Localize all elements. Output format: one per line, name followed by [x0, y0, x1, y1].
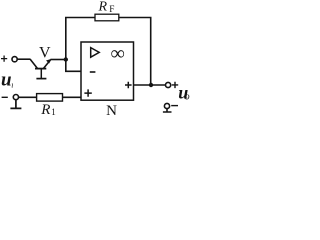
svg-text:u: u: [1, 70, 12, 91]
wire from transistor collector to node A: [50, 59, 65, 61]
svg-text:F: F: [109, 5, 114, 15]
wire op-amp output to + output terminal: [134, 84, 166, 86]
node A junction dot inverting input: [64, 57, 68, 61]
terminal - input circle: [13, 95, 18, 100]
svg-text:R: R: [98, 0, 108, 15]
svg-text:N: N: [106, 103, 117, 119]
resistor R1: [37, 94, 63, 102]
label - input: [2, 96, 8, 98]
ground at - output terminal: [163, 109, 172, 112]
wire from + terminal to transistor emitter: [17, 58, 30, 60]
terminal - output circle: [164, 103, 169, 108]
wire feedback top from RF to right vertical down to output node: [119, 18, 151, 86]
label + input: [1, 56, 7, 62]
resistor RF: [95, 14, 119, 21]
op-amp non-inverting input label +: [84, 89, 91, 96]
label + output: [172, 82, 178, 88]
svg-text:o: o: [185, 92, 190, 103]
terminal + input circle: [12, 57, 17, 62]
ground at transistor base: [36, 78, 46, 80]
wire feedback top from left vertical to RF: [66, 18, 95, 60]
svg-text:R: R: [40, 102, 50, 118]
op-amp triangle symbol: [91, 48, 100, 58]
op-amp U1 box: [81, 42, 134, 100]
wire from R1 to op-amp + input: [63, 96, 82, 98]
wire from - terminal to R1: [19, 96, 37, 98]
svg-text:1: 1: [51, 107, 56, 117]
wire jog from node A into op-amp inverting input: [66, 60, 81, 72]
node B junction dot output/feedback: [149, 83, 153, 87]
transistor V: [30, 59, 51, 78]
svg-text:ı: ı: [11, 81, 13, 90]
svg-text:∞: ∞: [111, 44, 125, 65]
terminal + output circle: [166, 82, 171, 87]
op-amp output label +: [125, 82, 132, 89]
ground at - input terminal: [10, 100, 21, 109]
label - output: [171, 105, 178, 107]
op-amp inverting input label -: [90, 71, 96, 73]
svg-text:V: V: [39, 45, 51, 62]
